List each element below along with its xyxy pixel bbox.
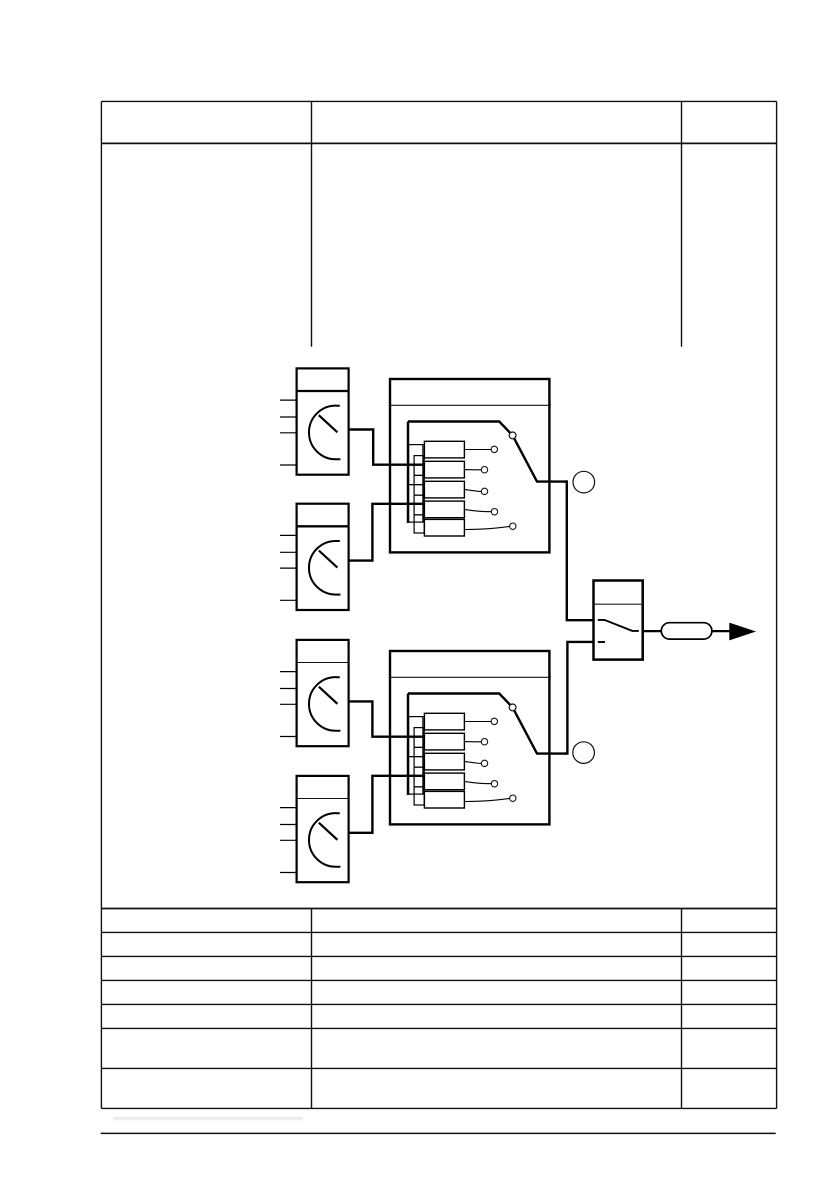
table column divider 2 (upper): [681, 101, 683, 346]
source pointer dial 2 (EXT1 in B): [280, 504, 349, 610]
limiter (stadium): [661, 623, 712, 639]
wire selector EXT2 output up to switch: [565, 642, 594, 754]
EXT1 option box 4: [424, 501, 464, 518]
table column divider 1 (lower): [311, 909, 313, 1109]
EXT1 option box 2: [424, 461, 464, 478]
source pointer dial 1 (EXT1 in A): [280, 368, 349, 474]
EXT1 option box 1: [424, 441, 464, 458]
node EXT1 circle: [573, 471, 595, 493]
switch contact arm: [598, 620, 639, 631]
output reference arrow: [729, 623, 756, 641]
EXT2 option box 4: [424, 773, 464, 790]
node EXT2 circle: [573, 742, 595, 764]
wire dial2 to selector EXT1: [349, 504, 425, 561]
faint highlight remnant: [113, 1117, 303, 1121]
footer horizontal rule: [101, 1132, 776, 1134]
EXT1 contact circles: [481, 446, 516, 529]
wire dial1 to selector EXT1: [349, 430, 425, 465]
wire limiter to output arrow: [711, 630, 729, 632]
EXT1 selector switch wire: [408, 422, 567, 482]
EXT2 option box 5: [424, 791, 464, 808]
EXT2 option box 2: [424, 733, 464, 750]
EXT2 switch pivot contact: [509, 704, 516, 711]
table column divider 2 (lower): [681, 909, 683, 1109]
source pointer dial 4 (EXT2 in B): [280, 776, 349, 882]
EXT2 contact wires: [464, 722, 510, 802]
EXT1 switch pivot contact: [509, 432, 516, 439]
switch lower contact dash: [598, 641, 605, 643]
EXT2 option box 1: [424, 713, 464, 730]
EXT1 option box 5: [424, 519, 464, 536]
EXT2 selection bus wire: [407, 694, 409, 796]
table outer border: [101, 101, 776, 1108]
wire switch to limiter: [643, 630, 662, 632]
source pointer dial 3 (EXT2 in A): [280, 640, 349, 746]
EXT1 contact wires: [464, 450, 510, 530]
EXT1 pointer sub-boxes (ladder): [409, 445, 425, 533]
diagram cell bottom rule: [101, 908, 776, 910]
EXT2 option box 3: [424, 753, 464, 770]
EXT2 pointer sub-boxes (ladder): [409, 717, 425, 805]
EXT2 selector switch wire: [408, 694, 567, 754]
EXT1 option box 3: [424, 481, 464, 498]
EXT1 selection bus wire: [407, 422, 409, 524]
EXT2 contact circles: [481, 718, 516, 801]
table row lines (bottom rows): [101, 932, 776, 1068]
wire dial4 to selector EXT2: [349, 776, 425, 833]
EXT1/EXT2 switch block frame: [594, 581, 643, 660]
wire selector EXT1 output down to switch: [565, 482, 594, 621]
selector block EXT1 frame: [390, 379, 551, 552]
selector block EXT2 frame: [390, 651, 551, 824]
table column divider 1 (upper): [311, 101, 313, 346]
table header bottom rule: [101, 142, 776, 144]
wire dial3 to selector EXT2: [349, 701, 425, 736]
